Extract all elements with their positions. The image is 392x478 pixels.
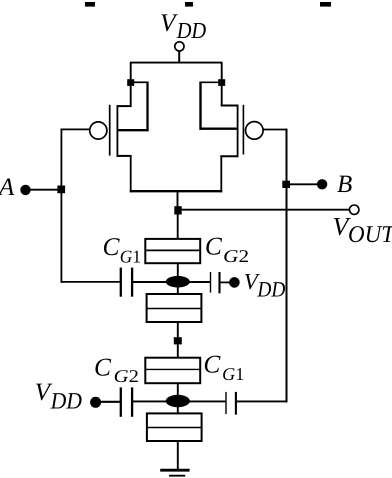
wire box4 to ground: [177, 441, 179, 470]
wire output node to C1 top plate: [177, 215, 179, 240]
wire floating gate row 2: [132, 400, 226, 402]
capacitor row1-left plate 2: [131, 268, 133, 297]
wire floating gate 1 to box2: [177, 287, 179, 295]
wire VDD stem: [178, 51, 180, 64]
wire B vertical: [286, 129, 288, 403]
wire box3 to floating gate 2: [177, 383, 179, 396]
M1 bulk wrap vertical: [146, 82, 148, 132]
terminal VDD row1 (filled dot): [229, 277, 240, 288]
svg-text:C: C: [94, 354, 112, 382]
wire cap to VDD dot (row 1): [220, 281, 235, 283]
wire rail left drop: [130, 63, 132, 80]
wire box1 to floating gate 1: [177, 263, 179, 277]
svg-text:B: B: [337, 171, 352, 198]
label VDD (row 1 right): [244, 269, 286, 302]
cropped text artifact 1 (top edge): [85, 2, 95, 7]
junction square (B node): [282, 181, 290, 188]
M2 bottom stub: [220, 155, 238, 157]
terminal VOUT (open circle): [350, 205, 359, 214]
capacitor box CG1/CG2 (upper double plate): [145, 239, 200, 263]
junction square (right source node): [218, 79, 225, 86]
M1 middle stub: [117, 129, 149, 131]
M1 bottom stub: [117, 155, 132, 157]
label CG1 (lower right): [203, 351, 244, 385]
svg-text:C: C: [205, 233, 223, 261]
label VOUT: [333, 212, 392, 248]
M2 gate bar: [242, 105, 244, 155]
wire A vertical: [60, 129, 62, 283]
wire rail right drop: [221, 63, 223, 80]
svg-text:A: A: [0, 174, 15, 201]
wire floating gate row 1: [132, 281, 210, 283]
M1 drain step down: [130, 156, 132, 192]
ground symbol: [160, 470, 189, 476]
capacitor row1-right plate 1: [210, 272, 212, 293]
svg-text:G2: G2: [223, 246, 249, 266]
capacitor box CG2/CG1 (lower double plate): [145, 358, 200, 384]
junction square (output node): [174, 206, 181, 214]
wire drain bus: [130, 190, 223, 192]
terminal VDD row2 (filled dot): [90, 397, 101, 408]
wire VDD rail: [130, 62, 223, 64]
svg-text:V: V: [160, 9, 178, 37]
transistor M2 (right PMOS): [200, 82, 264, 193]
floating gate ellipse 2: [166, 395, 190, 407]
svg-text:DD: DD: [50, 389, 82, 415]
capacitor row2-left plate 1: [120, 387, 122, 416]
capacitor row2-left plate 2: [131, 387, 133, 416]
junction square (mid node): [174, 337, 182, 344]
capacitor row2-right plate 2: [235, 392, 237, 415]
M2 bulk wrap horizontal: [200, 81, 219, 83]
M2 gate bubble: [246, 122, 264, 140]
transistor M1 (left PMOS): [90, 82, 149, 193]
capacitor row2-right plate 1: [225, 392, 227, 414]
svg-text:DD: DD: [257, 277, 286, 302]
label CG2 (upper right): [205, 233, 249, 266]
svg-text:DD: DD: [176, 18, 207, 43]
wire bus to output node: [177, 191, 179, 207]
svg-text:G1: G1: [222, 364, 244, 384]
svg-text:OUT: OUT: [348, 222, 392, 248]
terminal A (filled dot): [20, 185, 30, 195]
label VDD (top supply): [160, 9, 207, 43]
wire B input horizontal: [287, 183, 323, 185]
M1 top stub: [117, 105, 132, 107]
cropped text artifact 2 (top edge): [185, 2, 193, 7]
svg-text:C: C: [203, 351, 221, 379]
wire A vertical to cap (row 1 left): [61, 281, 120, 283]
M2 middle stub: [200, 127, 239, 129]
M1 bulk wrap horizontal: [134, 81, 149, 83]
wire A input horizontal: [26, 189, 62, 191]
M2 top stub: [221, 105, 239, 107]
M1 gate bubble: [90, 122, 107, 139]
wire cap to B vertical (row 2): [236, 400, 288, 402]
floating gate ellipse 1: [166, 276, 190, 288]
label CG1 (upper left): [103, 233, 142, 267]
wire box2 to mid junction: [177, 322, 179, 338]
wire M2 gate bubble to B vertical: [263, 129, 287, 131]
label CG2 (lower left): [94, 354, 139, 386]
capacitor row1-right plate 2: [218, 272, 220, 293]
M1 gate bar: [109, 105, 111, 156]
label VDD (row 2 left): [35, 379, 82, 414]
wire floating gate 2 to box4: [177, 407, 179, 415]
M2 source lead: [221, 86, 223, 107]
terminal VDD (open circle): [175, 42, 184, 51]
wire VOUT: [182, 209, 350, 211]
M1 channel bar: [116, 105, 118, 157]
M1 source lead: [130, 86, 132, 107]
wire VDD dot to cap (row 2): [96, 401, 120, 403]
wire A to M1 gate bubble: [61, 128, 89, 130]
cropped text artifact 3 (top edge): [320, 2, 331, 7]
junction square (A node): [57, 186, 65, 194]
M2 drain step down: [220, 156, 222, 192]
MOS box 2 (upper nMOS double box): [147, 294, 202, 322]
MOS box 4 (lower nMOS double box): [147, 413, 202, 441]
M2 bulk wrap vertical: [199, 82, 201, 130]
svg-text:C: C: [103, 233, 121, 261]
svg-text:G2: G2: [114, 366, 139, 386]
M2 channel bar: [237, 105, 239, 158]
svg-text:G1: G1: [120, 247, 141, 267]
junction square (left source node): [127, 79, 134, 86]
terminal B (filled dot): [317, 179, 327, 189]
wire mid junction to box3: [177, 344, 179, 358]
capacitor row1-left plate 1: [120, 268, 122, 297]
